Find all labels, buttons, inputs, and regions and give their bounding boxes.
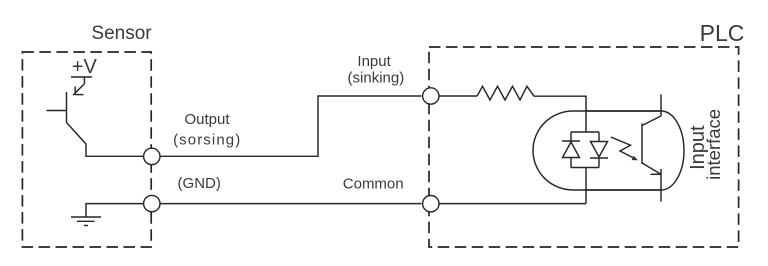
resistor R1 [477, 86, 534, 100]
terminal circle: sensor output [144, 148, 160, 164]
svg-text:(sinking): (sinking) [348, 69, 405, 86]
svg-text:+V: +V [72, 56, 98, 78]
svg-text:Sensor: Sensor [91, 23, 152, 44]
svg-text:(GND): (GND) [178, 175, 221, 192]
svg-text:(sorsing): (sorsing) [173, 132, 241, 149]
svg-text:Common: Common [343, 176, 404, 193]
LED pair D1 (anti-parallel diodes) [562, 132, 608, 168]
svg-text:interface: interface [703, 109, 724, 180]
svg-text:Input: Input [357, 53, 391, 70]
wire: PLC bottom rail from Common terminal [439, 203, 586, 205]
wire: common rail between GND terminal and Common terminal [160, 203, 422, 205]
ground [71, 217, 101, 226]
wire: LED branch down to common rail [585, 168, 587, 204]
wire: internal top (LED branch to phototransistor collector) [586, 110, 661, 112]
transistor Q1 (sensor PNP) [47, 77, 93, 123]
terminal circle: PLC input [423, 88, 439, 104]
sensor enclosure dashed box [22, 52, 151, 247]
light arrow from LED to phototransistor [611, 137, 637, 160]
wire: internal bottom (LED branch to phototransistor emitter) [586, 189, 661, 191]
wire: PLC top rail from Input terminal to resistor [439, 95, 477, 97]
wire: output (sorsing) to input (sinking) terminal [160, 96, 422, 156]
wire: sensor output (collector to output terminal) [67, 123, 144, 157]
terminal circle: PLC common [423, 196, 439, 212]
svg-text:Output: Output [184, 111, 230, 128]
terminal circle: sensor GND [144, 195, 160, 211]
wire: resistor to LED branch [534, 96, 586, 132]
optocoupler U1 package outline [533, 111, 684, 190]
wire: sensor GND to ground symbol [86, 204, 144, 217]
phototransistor Q2 [642, 95, 661, 202]
svg-text:PLC: PLC [700, 20, 745, 46]
PLC enclosure dashed box [429, 47, 739, 247]
